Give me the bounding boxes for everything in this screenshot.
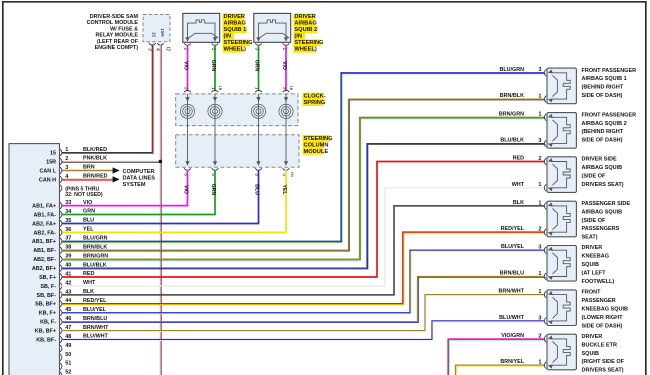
svg-text:1B: 1B: [289, 86, 294, 91]
svg-text:PASSENGER: PASSENGER: [582, 298, 616, 304]
steering column module: [176, 135, 299, 167]
SAM fuse/relay module connector I2: [143, 15, 170, 52]
svg-text:DRIVER-SIDE SAM: DRIVER-SIDE SAM: [90, 14, 139, 20]
pin id marks at clockspring top: [218, 86, 294, 91]
svg-text:52: 52: [65, 370, 71, 375]
svg-text:1: 1: [538, 289, 541, 295]
svg-text:BRN/GRN: BRN/GRN: [83, 253, 108, 259]
ACM pin 48: [36, 334, 108, 344]
steering column module bottom pins: [184, 168, 296, 178]
svg-text:3: 3: [538, 138, 541, 144]
driver airbag squib 2 connector: [254, 13, 291, 50]
svg-text:AB1, FA-: AB1, FA-: [34, 212, 57, 218]
svg-text:1: 1: [255, 87, 260, 90]
ACM pin 4: [39, 174, 108, 184]
svg-text:KNEEBAG: KNEEBAG: [582, 254, 610, 260]
ACM pin 1: [50, 147, 107, 157]
svg-text:15R: 15R: [160, 28, 165, 37]
svg-text:KB, F+: KB, F+: [39, 311, 56, 317]
svg-text:DRIVER SIDE: DRIVER SIDE: [582, 157, 617, 163]
driver airbag squib 1 connector: [183, 13, 220, 50]
svg-text:SB, F+: SB, F+: [39, 275, 56, 281]
svg-text:BRN/RED: BRN/RED: [83, 174, 108, 180]
svg-text:SB, BF+: SB, BF+: [35, 302, 56, 308]
svg-text:36: 36: [65, 227, 71, 233]
ACM unused pins note: [60, 185, 103, 198]
ACM pin 51: [60, 361, 71, 370]
svg-text:BRN/BLU: BRN/BLU: [83, 316, 107, 322]
svg-text:RED: RED: [513, 156, 524, 162]
label: driver side airbag squib connector: [582, 157, 624, 188]
svg-text:ENGINE COMPT): ENGINE COMPT): [95, 45, 139, 51]
svg-text:PASSENGERS: PASSENGERS: [582, 226, 620, 232]
wire BRN/GRN : ACM pin 39 to connector 2 pin 1: [62, 111, 546, 260]
svg-text:1: 1: [538, 94, 541, 100]
svg-text:COLUMN: COLUMN: [304, 142, 329, 148]
svg-text:KB, BF+: KB, BF+: [35, 329, 56, 335]
svg-text:YEL: YEL: [281, 184, 287, 195]
wire BLU : steering column to ACM pin 35: [62, 170, 260, 224]
svg-text:2: 2: [538, 156, 541, 162]
svg-text:35: 35: [65, 218, 71, 224]
svg-text:CAN L: CAN L: [40, 168, 57, 174]
internal wire + clockspring coil 4: [279, 94, 293, 166]
ACM pin 37: [32, 236, 108, 246]
wire BLU/BLK : ACM pin 40 to connector 2 pin 3: [62, 138, 546, 269]
svg-text:BRN/BLU: BRN/BLU: [500, 271, 524, 277]
ACM pin 34: [34, 209, 96, 219]
label: front passenger kneebag squib connector: [582, 290, 628, 330]
svg-text:SIDE OF DASH): SIDE OF DASH): [582, 138, 623, 144]
svg-text:1: 1: [538, 200, 541, 206]
svg-text:GRN: GRN: [253, 60, 259, 72]
wire RED/YEL : ACM pin 44 to connector 4 pin 2: [62, 226, 546, 304]
internal wire + clockspring coil 3: [251, 94, 265, 166]
svg-text:BRN/BLK: BRN/BLK: [500, 93, 524, 99]
svg-text:3: 3: [538, 245, 541, 251]
svg-text:COMPUTER: COMPUTER: [123, 169, 155, 175]
ACM pin 41: [39, 271, 94, 281]
wire BLU/GRN : ACM pin 37 to connector 1 pin 3: [62, 67, 546, 242]
ACM pin 36: [34, 227, 95, 237]
svg-text:(IN: (IN: [294, 34, 302, 40]
internal wire + clockspring coil 2: [208, 94, 222, 166]
ACM pin 50: [60, 352, 71, 361]
svg-text:DRIVER: DRIVER: [224, 14, 246, 20]
passenger side airbag squib connector: [544, 201, 576, 237]
svg-text:GRN: GRN: [210, 60, 216, 72]
svg-text:BLK/RED: BLK/RED: [83, 147, 107, 153]
wire RED : ACM pin 41 to connector 3 pin 2: [62, 156, 545, 278]
svg-text:2: 2: [538, 227, 541, 233]
svg-text:MODULE: MODULE: [304, 149, 329, 155]
svg-text:AIRBAG SQUIB 2: AIRBAG SQUIB 2: [582, 121, 627, 127]
wire PNK/BLK : SAM I2 pin 4 to ACM pin 2 and down off-page: [62, 45, 162, 375]
svg-text:2: 2: [538, 333, 541, 339]
ACM pin 40: [32, 262, 107, 272]
svg-text:DRIVER: DRIVER: [582, 334, 603, 340]
ACM pin 44: [35, 298, 107, 308]
svg-text:1: 1: [538, 360, 541, 366]
svg-text:DRIVER: DRIVER: [582, 245, 603, 251]
svg-text:W/ FUSE &: W/ FUSE &: [110, 26, 138, 32]
svg-text:3: 3: [538, 315, 541, 321]
svg-text:AB2, BF-: AB2, BF-: [33, 257, 56, 263]
wire BRN : ACM pin 3 to computer data lines: [62, 167, 120, 173]
svg-text:(LOWER RIGHT: (LOWER RIGHT: [582, 315, 624, 321]
svg-text:YEL: YEL: [83, 227, 94, 233]
svg-text:DRIVERS SEAT): DRIVERS SEAT): [582, 182, 624, 188]
svg-text:KNEEBAG SQUIB: KNEEBAG SQUIB: [582, 307, 628, 313]
svg-text:STEERING: STEERING: [294, 40, 324, 46]
label: driver buckle ETR squib connector: [582, 334, 625, 374]
svg-text:34: 34: [65, 209, 72, 215]
front passenger kneebag squib connector: [544, 290, 576, 326]
svg-text:33: 33: [65, 200, 71, 206]
svg-text:AB2, BF+: AB2, BF+: [32, 266, 56, 272]
svg-text:15R: 15R: [46, 159, 56, 165]
svg-text:DATA LINES: DATA LINES: [123, 176, 156, 182]
svg-text:PASSENGER SIDE: PASSENGER SIDE: [582, 201, 631, 207]
label: driver airbag squib 1: [223, 13, 254, 52]
svg-text:BLU/BLK: BLU/BLK: [83, 262, 107, 268]
svg-text:BLU/YEL: BLU/YEL: [501, 244, 525, 250]
svg-text:BLU/WHT: BLU/WHT: [499, 315, 525, 321]
svg-text:RED/YEL: RED/YEL: [501, 226, 525, 232]
svg-text:VIO: VIO: [281, 61, 287, 70]
internal wire + clockspring coil 1: [180, 94, 194, 166]
svg-text:1: 1: [211, 87, 216, 90]
wire BRN/RED : ACM pin 4 to computer data lines: [62, 176, 120, 182]
svg-text:(BEHIND RIGHT: (BEHIND RIGHT: [582, 129, 624, 135]
label: computer data lines system: [123, 169, 156, 188]
svg-text:BLU/WHT: BLU/WHT: [83, 334, 109, 340]
svg-text:(SIDE OF: (SIDE OF: [582, 218, 606, 224]
svg-text:SB, BF-: SB, BF-: [37, 293, 57, 299]
svg-text:AB1, BF+: AB1, BF+: [32, 239, 56, 245]
wire VIO : steering column to ACM pin 33: [62, 170, 189, 206]
ACM pin 42: [40, 280, 96, 290]
svg-text:CLOCK-: CLOCK-: [304, 94, 326, 100]
svg-text:1B: 1B: [218, 86, 223, 91]
wire VIO : squib to clockspring at x=286.0: [281, 45, 287, 92]
svg-text:VIO: VIO: [83, 200, 92, 206]
driver buckle ETR squib connector: [544, 334, 576, 370]
svg-text:FOOTWELL): FOOTWELL): [582, 279, 615, 285]
svg-text:1: 1: [538, 271, 541, 277]
ACM pin 52: [60, 370, 71, 375]
svg-text:15: 15: [50, 151, 56, 157]
svg-text:VIO: VIO: [182, 185, 188, 194]
svg-text:BRN/YEL: BRN/YEL: [500, 359, 524, 365]
wire BRN/BLU : ACM pin 46 to connector 5 pin 1: [62, 271, 546, 323]
front passenger airbag squib 1 connector: [544, 68, 576, 104]
svg-text:2: 2: [184, 87, 189, 90]
svg-text:VIO: VIO: [182, 61, 188, 70]
driver-side SAM control module label: [87, 14, 139, 51]
svg-text:FRONT PASSENGER: FRONT PASSENGER: [582, 112, 637, 118]
svg-text:KB, BF-: KB, BF-: [36, 337, 56, 343]
svg-text:GRN: GRN: [83, 209, 95, 215]
svg-text:H1: H1: [290, 172, 295, 178]
svg-text:SIDE OF DASH): SIDE OF DASH): [582, 323, 623, 329]
svg-text:1: 1: [538, 182, 541, 188]
svg-text:WHEEL): WHEEL): [224, 47, 247, 53]
label: passenger side airbag squib connector: [582, 201, 631, 241]
svg-text:BLU: BLU: [83, 218, 94, 224]
svg-text:FRONT PASSENGER: FRONT PASSENGER: [582, 68, 637, 74]
svg-text:BLU/YEL: BLU/YEL: [83, 307, 107, 313]
ACM pin 49: [60, 343, 71, 352]
svg-text:2: 2: [65, 156, 68, 162]
wire BLU/WHT : ACM pin 48 to connector 6 pin 3: [62, 315, 546, 341]
svg-text:DRIVERS SEAT): DRIVERS SEAT): [582, 368, 624, 374]
ACM pin 3: [40, 165, 95, 175]
svg-text:3: 3: [65, 165, 68, 171]
svg-text:AB1, BF-: AB1, BF-: [33, 248, 56, 254]
svg-text:(BEHIND RIGHT: (BEHIND RIGHT: [582, 85, 624, 91]
svg-text:(LEFT REAR OF: (LEFT REAR OF: [97, 39, 139, 45]
svg-text:WHT: WHT: [83, 280, 96, 286]
svg-text:BRN/WHT: BRN/WHT: [499, 289, 525, 295]
svg-text:DRIVER: DRIVER: [294, 14, 316, 20]
wire BLU/YEL : ACM pin 45 to connector 5 pin 3: [62, 244, 546, 313]
driver side airbag squib connector: [544, 157, 576, 193]
wire BLK/RED : SAM I2 pin 3 to ACM pin 1: [62, 45, 154, 154]
ACM pin 35: [32, 218, 94, 228]
svg-text:BLU: BLU: [253, 184, 259, 195]
svg-text:1: 1: [65, 147, 68, 153]
svg-text:15: 15: [151, 32, 156, 38]
svg-text:BLK: BLK: [513, 200, 524, 206]
svg-text:RELAY MODULE: RELAY MODULE: [95, 33, 138, 39]
driver kneebag squib connector: [544, 246, 576, 282]
wire GRN : steering column to ACM pin 34: [62, 170, 216, 215]
front passenger airbag squib 2 connector: [544, 113, 576, 149]
ACM pin 45: [39, 307, 107, 317]
svg-text:KB, F-: KB, F-: [40, 320, 56, 326]
svg-text:BRN/WHT: BRN/WHT: [83, 325, 109, 331]
svg-text:BLU/GRN: BLU/GRN: [499, 67, 524, 73]
ACM pin 38: [33, 244, 107, 254]
svg-text:STEERING: STEERING: [304, 136, 334, 142]
label: steering column module: [303, 135, 334, 155]
label: driver kneebag squib connector: [582, 245, 615, 285]
svg-text:BUCKLE ETR: BUCKLE ETR: [582, 342, 617, 348]
airbag control module (left): [9, 144, 60, 375]
svg-text:49: 49: [65, 343, 71, 349]
svg-text:SB, F-: SB, F-: [40, 284, 56, 290]
svg-text:SQUIB 1: SQUIB 1: [224, 27, 247, 33]
svg-text:SYSTEM: SYSTEM: [123, 182, 146, 188]
wire WHT : ACM pin 42 to connector 3 pin 1: [62, 182, 545, 286]
svg-text:1: 1: [538, 112, 541, 118]
svg-text:PNK/BLK: PNK/BLK: [83, 156, 107, 162]
ACM pin 46: [40, 316, 107, 326]
svg-text:AIRBAG SQUIB: AIRBAG SQUIB: [582, 209, 623, 215]
label: clockspring: [303, 93, 326, 106]
ACM pin 39: [33, 253, 108, 263]
wire BLK : ACM pin 43 to connector 4 pin 1: [62, 200, 545, 295]
svg-text:AIRBAG SQUIB: AIRBAG SQUIB: [582, 165, 623, 171]
svg-text:BRN/BLK: BRN/BLK: [83, 244, 107, 250]
svg-text:(AT LEFT: (AT LEFT: [582, 271, 607, 277]
wire VIO : squib to clockspring at x=187.5: [182, 45, 188, 92]
svg-text:SQUIB 2: SQUIB 2: [294, 27, 317, 33]
svg-text:SQUIB: SQUIB: [582, 262, 599, 268]
svg-text:STEERING: STEERING: [224, 40, 254, 46]
label: front passenger airbag squib 2 connector: [582, 112, 637, 143]
svg-text:SQUIB: SQUIB: [582, 351, 599, 357]
label: driver airbag squib 2: [293, 13, 324, 52]
wire GRN : squib to clockspring at x=215.0: [210, 45, 216, 92]
svg-text:AB2, FA-: AB2, FA-: [34, 230, 57, 236]
svg-text:50: 50: [65, 352, 71, 358]
svg-text:GRN: GRN: [210, 184, 216, 196]
ACM pin 33: [32, 200, 92, 210]
svg-text:BLU/GRN: BLU/GRN: [83, 236, 108, 242]
svg-text:BRN: BRN: [83, 165, 95, 171]
svg-text:(IN: (IN: [224, 34, 232, 40]
svg-text:SEAT): SEAT): [582, 235, 598, 241]
svg-text:(SIDE OF: (SIDE OF: [582, 173, 606, 179]
svg-text:32: NOT USED): 32: NOT USED): [65, 192, 103, 198]
svg-text:2: 2: [282, 87, 287, 90]
svg-text:VIO/GRN: VIO/GRN: [501, 333, 524, 339]
ACM pin 43: [37, 289, 95, 299]
svg-text:SPRING: SPRING: [304, 100, 326, 106]
svg-text:AB1, FA+: AB1, FA+: [32, 204, 56, 210]
svg-text:WHT: WHT: [512, 182, 525, 188]
svg-text:AIRBAG SQUIB 1: AIRBAG SQUIB 1: [582, 76, 627, 82]
ACM pin 2: [46, 156, 107, 166]
junction on PNK/BLK wire: [159, 160, 163, 164]
label: front passenger airbag squib 1 connector: [582, 68, 637, 99]
wire BRN/YEL : driver buckle ETR squib pin 1, down off-page: [456, 359, 546, 375]
wire BRN/BLK : ACM pin 38 to connector 1 pin 1: [62, 93, 546, 251]
wire BRN/WHT : ACM pin 47 to connector 6 pin 1: [62, 289, 546, 332]
wire YEL : steering column to ACM pin 36: [62, 170, 287, 233]
svg-text:CONTROL MODULE: CONTROL MODULE: [87, 20, 139, 26]
svg-text:(RIGHT SIDE OF: (RIGHT SIDE OF: [582, 359, 625, 365]
clockspring module: [176, 90, 298, 125]
svg-text:SIDE OF DASH): SIDE OF DASH): [582, 93, 623, 99]
svg-text:BLU/BLK: BLU/BLK: [500, 138, 524, 144]
wire GRN : squib to clockspring at x=258.5: [253, 45, 259, 92]
svg-text:FRONT: FRONT: [582, 290, 602, 296]
svg-text:CAN H: CAN H: [39, 177, 56, 183]
svg-text:3: 3: [538, 67, 541, 73]
svg-text:AIRBAG: AIRBAG: [294, 21, 317, 27]
svg-text:AIRBAG: AIRBAG: [224, 21, 247, 27]
svg-text:I2: I2: [164, 47, 170, 51]
wire VIO/GRN : driver buckle ETR squib pin 2, down off-page: [448, 333, 546, 375]
svg-text:BRN/GRN: BRN/GRN: [499, 111, 524, 117]
ACM pin 47: [35, 325, 109, 335]
svg-text:WHEEL): WHEEL): [294, 47, 317, 53]
svg-text:51: 51: [65, 361, 71, 367]
svg-text:AB2, FA+: AB2, FA+: [32, 221, 56, 227]
